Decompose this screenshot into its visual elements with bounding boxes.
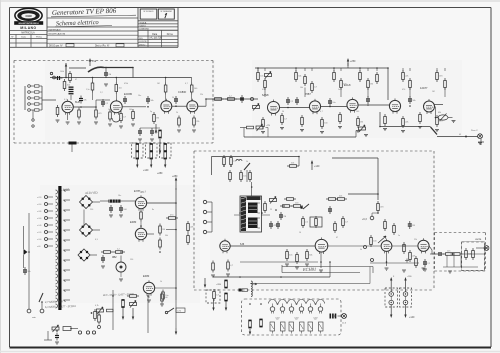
svg-text:0,1: 0,1	[64, 99, 67, 101]
svg-text:CGM: CGM	[25, 14, 31, 18]
svg-text:N° FOGLIO: N° FOGLIO	[144, 11, 154, 13]
svg-text:Firma: Firma	[167, 33, 174, 36]
svg-text:N°: N°	[11, 37, 14, 39]
svg-text:1,5n: 1,5n	[86, 89, 90, 91]
svg-text:25: 25	[270, 209, 272, 211]
svg-text:6,3V: 6,3V	[313, 318, 318, 320]
svg-text:B7: B7	[296, 319, 298, 321]
svg-text:100: 100	[356, 111, 359, 113]
svg-text:1M: 1M	[432, 91, 435, 93]
svg-text:10n: 10n	[447, 250, 450, 252]
svg-text:6,3V: 6,3V	[294, 318, 299, 320]
svg-text:470: 470	[402, 89, 405, 91]
svg-text:1n: 1n	[398, 235, 400, 237]
svg-text:MILANO: MILANO	[20, 26, 36, 30]
svg-text:470k: 470k	[124, 83, 128, 85]
svg-text:Data: Data	[21, 36, 26, 39]
svg-text:22k: 22k	[200, 94, 203, 96]
svg-text:47: 47	[75, 79, 77, 81]
svg-text:22k: 22k	[414, 239, 417, 241]
svg-text:1n: 1n	[338, 89, 340, 91]
svg-text:8u: 8u	[152, 209, 154, 211]
svg-text:47k: 47k	[262, 89, 265, 91]
svg-text:16u: 16u	[118, 195, 121, 197]
svg-text:2,2: 2,2	[392, 111, 395, 113]
svg-text:50: 50	[282, 111, 284, 113]
svg-text:22: 22	[366, 87, 368, 89]
svg-text:1M: 1M	[157, 83, 160, 85]
svg-text:50k: 50k	[165, 235, 168, 237]
svg-text:100k: 100k	[60, 71, 64, 73]
svg-text:6,3: 6,3	[95, 239, 98, 241]
svg-text:uscita: uscita	[475, 238, 482, 241]
svg-text:250: 250	[90, 209, 93, 211]
svg-text:6,3V: 6,3V	[275, 318, 280, 320]
svg-text:47: 47	[336, 237, 338, 239]
svg-text:5k: 5k	[360, 249, 362, 251]
svg-text:4,7: 4,7	[320, 111, 323, 113]
svg-text:B7: B7	[277, 319, 279, 321]
svg-text:50: 50	[172, 97, 174, 99]
svg-text:B7: B7	[315, 319, 317, 321]
svg-text:4,7k: 4,7k	[177, 310, 181, 312]
svg-text:+140: +140	[409, 316, 415, 319]
svg-text:4,7: 4,7	[185, 83, 188, 85]
svg-text:MATRICOLA: MATRICOLA	[21, 32, 35, 35]
svg-text:MILLEPONTIROMOLI: MILLEPONTIROMOLI	[19, 23, 40, 25]
svg-text:100: 100	[129, 109, 132, 111]
svg-text:Firma: Firma	[36, 36, 42, 39]
svg-text:+280: +280	[172, 175, 178, 178]
svg-text:DIS.E gra. N°: DIS.E gra. N°	[49, 45, 63, 48]
svg-text:10k: 10k	[300, 87, 303, 89]
svg-text:MODIFICAZIONI: MODIFICAZIONI	[49, 32, 66, 35]
svg-text:5p: 5p	[150, 111, 152, 113]
svg-text:1k: 1k	[160, 281, 162, 283]
svg-text:10: 10	[299, 232, 301, 234]
svg-text:150: 150	[130, 259, 133, 261]
svg-text:2,2: 2,2	[100, 92, 103, 94]
svg-text:2k: 2k	[176, 112, 178, 114]
svg-text:1k: 1k	[108, 109, 110, 111]
svg-text:Pres.V: Pres.V	[471, 129, 478, 132]
svg-text:1k: 1k	[246, 161, 248, 163]
svg-text:10n: 10n	[138, 95, 141, 97]
svg-text:o-80: o-80	[37, 246, 40, 248]
svg-text:Dist.to /Po. N°: Dist.to /Po. N°	[95, 45, 110, 48]
svg-text:4,7k: 4,7k	[95, 305, 99, 307]
svg-text:50k: 50k	[27, 271, 30, 273]
svg-text:+140: +140	[143, 169, 149, 172]
svg-text:+280: +280	[157, 172, 163, 175]
